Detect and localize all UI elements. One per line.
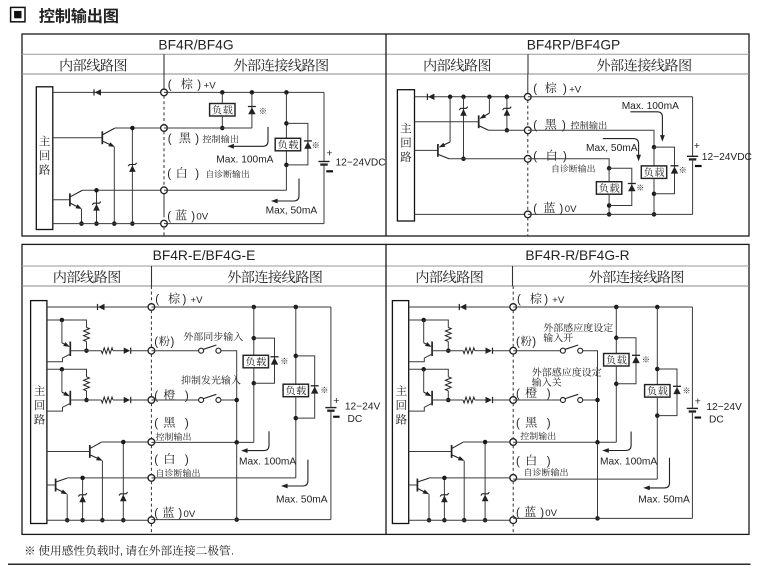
diode D1 reverse-protection (94, 89, 101, 95)
Q4 terminal white (510, 475, 517, 482)
Q3 transistor NPN diagnosis output (47, 478, 68, 494)
Q3 wire R4 to diode (113, 399, 124, 401)
Q3 label battery minus (333, 416, 340, 418)
Q4 label ( 黑 ) (516, 417, 551, 430)
svg-text:0V: 0V (545, 508, 557, 519)
Q4 diode D9 flyback (616, 338, 640, 384)
Q3 battery BT3 12-24V DC (325, 307, 336, 520)
column header 外部连接线路图 (right) (589, 270, 683, 283)
Q4 label (粉) (516, 336, 536, 349)
Q4 label 12-24V (706, 402, 742, 413)
Q3 main-circuit box 主回路 (31, 301, 47, 524)
svg-text:): ) (171, 337, 175, 349)
label ※ D2 (260, 108, 266, 114)
svg-text:): ) (547, 388, 551, 400)
svg-text:): ) (540, 507, 544, 519)
svg-text:(: ( (516, 456, 520, 468)
model title BF4R-R/BF4G-R (525, 248, 629, 263)
Q4 wire diode to orange terminal (493, 399, 514, 401)
svg-text:Max. 100mA: Max. 100mA (239, 457, 296, 468)
Q3 load LOAD6 diagnosis (283, 307, 308, 478)
label ( 蓝 )0V (167, 209, 209, 223)
Q4 wire input bus to 0V (595, 442, 600, 520)
Q4 wire black output external (513, 440, 616, 445)
Q3 zener diagnosis clamp (78, 476, 87, 523)
Q4 wire switch 2 to bus (583, 398, 600, 403)
wire Q4 collector to white output (449, 158, 528, 160)
diode D4 reverse-protection (427, 94, 434, 100)
Q3 wire input bus to 0V (234, 442, 239, 521)
svg-text:(: ( (516, 418, 520, 430)
table header row separator (22, 73, 749, 75)
Q2 terminal strip dashed line (527, 74, 529, 236)
svg-text:): ) (563, 151, 567, 163)
Q4 label 自诊断输出 (525, 468, 567, 476)
Q4 wire pink to switch (513, 350, 560, 352)
label battery minus (326, 170, 333, 172)
Q4 load LOAD7 control (604, 307, 629, 442)
Q4 terminal brown (510, 304, 517, 311)
svg-text:(: ( (533, 84, 537, 96)
model title BF4R/BF4G (158, 38, 233, 53)
load LOAD2 on self-diagnosis output (275, 92, 300, 190)
transistor Q2 NPN self-diagnosis output (53, 190, 82, 209)
label ※ D6 (637, 185, 643, 191)
Q4 input stage 1 pull-up wire (409, 318, 449, 328)
table center divider (385, 244, 387, 534)
label Max. 100mA (216, 155, 273, 166)
Q4 diode reverse-protection (459, 304, 466, 310)
Q3 label ( 蓝 )0V (154, 507, 196, 521)
Q3 diode input 2 series (124, 397, 131, 403)
Q4 label 控制输出 (520, 432, 555, 440)
svg-text:): ) (547, 456, 551, 468)
Q3 label 自诊断输出 (157, 469, 199, 477)
Q3 label ※ D7 (281, 358, 287, 364)
Q4 label 外部感应度设定 (2) (532, 367, 601, 376)
svg-text:0V: 0V (196, 212, 208, 223)
terminal white self-diagnosis output (524, 155, 531, 162)
model title BF4R-E/BF4G-E (153, 248, 256, 263)
svg-text:Max. 50mA: Max. 50mA (276, 495, 328, 506)
wire white output external (164, 189, 286, 191)
Q3 diode reverse-protection (98, 304, 105, 310)
Q3 label DC (348, 414, 363, 425)
Q3 wire collector to white terminal (67, 477, 151, 479)
svg-text:(: ( (167, 211, 171, 223)
label 12-24VDC (336, 157, 386, 168)
label ( 棕 )+V (533, 82, 582, 96)
svg-text:(: ( (516, 507, 520, 519)
svg-text:.: . (231, 546, 234, 558)
svg-text:Max, 50mA: Max, 50mA (266, 206, 318, 217)
main-circuit box U2 主回路 (397, 90, 414, 221)
diode D3 external flyback (286, 123, 312, 164)
svg-text:0V: 0V (565, 204, 577, 215)
Q3 wire emitter to rail (100, 461, 105, 523)
Q3 zener control clamp (119, 440, 128, 523)
svg-text:): ) (185, 418, 189, 430)
svg-text:12−24VDC: 12−24VDC (336, 157, 386, 168)
terminal blue 0V (524, 211, 531, 218)
label ( 白 ) 自诊断输出 (167, 167, 249, 181)
Q3 label (粉) (154, 336, 174, 349)
svg-text:+: + (326, 148, 332, 160)
terminal black control output (161, 125, 168, 132)
column header 内部线路图 (right) (417, 270, 483, 283)
svg-text:(: ( (155, 294, 159, 306)
svg-text:): ) (195, 134, 199, 146)
wire 0V external (164, 223, 324, 225)
svg-text:(: ( (517, 294, 521, 306)
Q3 terminal strip dashed line (150, 286, 152, 534)
svg-text:(: ( (154, 391, 158, 403)
svg-text:(: ( (167, 169, 171, 181)
model title BF4RP/BF4GP (527, 38, 621, 53)
Q4 transistor input 2 PNP (409, 369, 432, 411)
Q3 label battery plus (333, 395, 339, 407)
Q3 terminal blue (148, 517, 155, 524)
Q4 switch S4 sensitivity set OFF (560, 394, 582, 402)
Q4 wire white output external (513, 478, 657, 480)
Q4 label Max. 100mA (600, 457, 657, 468)
Q4 wire emitter to rail (462, 461, 467, 523)
page title 控制输出图 (39, 8, 118, 23)
table title row separator (22, 265, 749, 267)
Q4 wire diode to pink terminal (493, 350, 514, 352)
battery BT1 12-24VDC (318, 92, 329, 223)
Q3 wire emitter to rail (65, 494, 70, 522)
Q3 switch S1 external sync input (199, 345, 221, 353)
Q4 resistor R3 pull-up (445, 377, 451, 402)
svg-text:(: ( (154, 508, 158, 520)
Q3 label ( 白 ) (154, 453, 189, 467)
zener ZD3 on diagnosis output (459, 97, 468, 161)
Q3 wire orange to switch (151, 399, 198, 401)
label Max, 50mA (266, 206, 318, 217)
Q3 transistor input 2 PNP (47, 369, 70, 411)
Q3 input stage 2 pull-up wire (47, 367, 87, 377)
wire +V external to battery (528, 96, 693, 98)
svg-text:): ) (532, 337, 536, 349)
Q4 wire +V external (513, 305, 692, 310)
Q3 diode D8 flyback (296, 356, 319, 418)
Q4 label ( 棕 )+V (517, 293, 565, 307)
table title row separator (22, 53, 749, 55)
Q4 terminal orange (510, 397, 517, 404)
label ( 棕 )+V (168, 78, 216, 92)
Q4 main-circuit box 主回路 (392, 301, 408, 524)
footnote underline rule (8, 563, 751, 565)
Q3 wire +V external (151, 305, 331, 310)
svg-text:(: ( (533, 151, 537, 163)
zener ZD1 output clamp (128, 126, 137, 226)
wire Q3 collector to black output (489, 129, 528, 131)
Q4 label Max. 50mA (638, 495, 690, 506)
svg-text:(: ( (154, 455, 158, 467)
Q3 input stage 1 pull-up wire (47, 318, 87, 328)
svg-text:(: ( (154, 337, 158, 349)
Q3 load LOAD5 control (243, 307, 268, 442)
Q3 wire R2 to diode (113, 350, 124, 352)
diode D5 external flyback (654, 147, 679, 194)
svg-text:12−24V: 12−24V (706, 402, 742, 413)
Q4 label battery minus (695, 417, 702, 419)
Q4 transistor NPN diagnosis output (409, 478, 430, 494)
header column divider (left quadrant) (163, 54, 165, 74)
terminal blue 0V (161, 220, 168, 227)
svg-text:Max. 50mA: Max. 50mA (638, 495, 690, 506)
svg-text:Max, 50mA: Max, 50mA (586, 143, 638, 154)
Q3 label ( 棕 )+V (155, 293, 203, 307)
Q4 resistor R2 input 1 series (463, 348, 475, 354)
Q4 diode input 1 series (486, 348, 493, 354)
Q4 wire collector to black terminal (463, 441, 513, 443)
header column divider (left quadrant) (151, 266, 153, 286)
Q4 terminal blue (510, 517, 517, 524)
zener ZD2 diagnosis clamp (92, 188, 101, 226)
Q4 wire switch to bus (583, 351, 598, 443)
svg-text:+: + (695, 396, 701, 408)
label 12-24VDC (702, 152, 752, 163)
wire black output external (164, 127, 252, 129)
wire +V brown internal (415, 95, 528, 100)
page title bullet icon (11, 7, 25, 21)
Q4 zener diagnosis clamp (440, 476, 449, 523)
footnote ※ inductive load note (26, 545, 234, 558)
svg-text:+V: +V (552, 295, 565, 306)
Q3 label ( 橙 ) (154, 389, 189, 403)
label ※ D3 (313, 142, 319, 148)
wire Q2 collector to white output (82, 189, 164, 191)
diode D6 external flyback (609, 168, 636, 205)
main-circuit box U1 主回路 (36, 87, 53, 230)
Q4 arrow current diagnosis output (643, 458, 669, 491)
label Max. 100mA (622, 101, 679, 112)
Q4 diode input 2 series (486, 397, 493, 403)
svg-text:BF4RP/BF4GP: BF4RP/BF4GP (527, 38, 621, 53)
table frame (22, 34, 749, 236)
Q3 label ※ D8 (321, 387, 327, 393)
wire Q1 emitter down (112, 147, 117, 226)
label 自诊断输出 (553, 164, 595, 172)
Q3 resistor R2 input 1 series (101, 348, 113, 354)
wire +V brown internal (53, 91, 164, 93)
Q4 wire 0V internal rail (409, 519, 514, 521)
svg-text:(: ( (168, 80, 172, 92)
svg-text:Max. 100mA: Max. 100mA (622, 101, 679, 112)
Q4 input stage 2 pull-up wire (409, 367, 449, 377)
Q4 load LOAD8 diagnosis (645, 307, 670, 479)
svg-text:): ) (544, 294, 548, 306)
header column divider (right quadrant) (512, 266, 514, 286)
Q4 label ※ D10 (684, 387, 690, 393)
Q3 wire diode to orange terminal (131, 399, 152, 401)
table frame (22, 244, 749, 534)
svg-text:+V: +V (569, 84, 582, 95)
svg-text:BF4R/BF4G: BF4R/BF4G (158, 38, 233, 53)
transistor Q1 NPN control output (53, 128, 115, 147)
Q3 terminal pink (148, 347, 155, 354)
battery BT2 12-24VDC (687, 97, 698, 215)
Q4 wire R4 to diode (475, 399, 486, 401)
label ( 黑 ) 控制输出 (533, 119, 606, 132)
table header row separator (22, 285, 749, 287)
arrow current control output (227, 127, 268, 149)
Q3 transistor NPN control output (47, 442, 103, 461)
wire 0V external (528, 213, 693, 215)
Q4 label DC (709, 415, 724, 426)
Q4 terminal pink (510, 347, 517, 354)
Q3 wire black output external (151, 440, 253, 445)
label battery plus (326, 148, 332, 160)
Q4 label 外部感应度设定 (1) (544, 323, 613, 332)
Q3 wire 0V external (151, 519, 331, 521)
Q4 arrow current control output (602, 432, 631, 453)
diode D2 external flyback (248, 92, 256, 128)
Q3 transistor input 1 PNP (47, 320, 70, 362)
Q3 arrow current diagnosis output (281, 460, 308, 489)
column header 内部线路图 (left) (54, 270, 120, 283)
Q4 switch S3 sensitivity set ON (560, 345, 582, 353)
zener ZD4 on control output (503, 97, 512, 133)
Q3 arrow current control output (241, 431, 269, 453)
svg-text:+V: +V (204, 80, 217, 91)
Q3 resistor R1 pull-up (84, 328, 90, 353)
table center divider (385, 34, 387, 236)
svg-text:(: ( (168, 134, 172, 146)
Q4 label ※ D9 (643, 356, 649, 362)
svg-text:DC: DC (709, 415, 724, 426)
Q1 terminal strip dashed line (163, 74, 165, 236)
Q4 terminal strip dashed line (512, 286, 514, 534)
label battery plus (694, 140, 700, 152)
svg-text:BF4R-R/BF4G-R: BF4R-R/BF4G-R (525, 248, 629, 263)
svg-text:): ) (178, 508, 182, 520)
Q3 diode input 1 series (124, 348, 131, 354)
wire 0V internal rail (53, 223, 164, 225)
Q4 label 输入关 (532, 377, 561, 386)
terminal brown +V (524, 93, 531, 100)
Q4 label ( 蓝 )0V (516, 506, 558, 520)
arrow current control output (630, 112, 664, 142)
Q4 wire collector to white terminal (429, 477, 513, 479)
wire black output external (528, 130, 656, 149)
Q4 terminal black (510, 439, 517, 446)
svg-text:BF4R-E/BF4G-E: BF4R-E/BF4G-E (153, 248, 256, 263)
svg-text:0V: 0V (184, 509, 196, 520)
svg-text:12−24V: 12−24V (345, 401, 381, 412)
svg-text:): ) (197, 80, 201, 92)
Q3 wire collector to black terminal (101, 441, 151, 443)
Q4 wire R2 to diode (475, 350, 486, 352)
label ( 黑 ) 控制输出 (168, 132, 239, 145)
wire white output external (528, 159, 612, 171)
Q3 label Max. 50mA (276, 495, 328, 506)
svg-text:+: + (694, 140, 700, 152)
Q3 label ( 黑 ) (154, 417, 189, 430)
Q3 terminal brown (148, 304, 155, 311)
Q3 wire input 2 base line (70, 399, 101, 401)
Q3 terminal black (148, 439, 155, 446)
svg-text:(: ( (154, 418, 158, 430)
Q4 diode D10 flyback (657, 369, 681, 416)
Q4 zener control clamp (481, 440, 490, 523)
Q4 label ( 橙 ) (516, 387, 551, 401)
wire 0V internal rail (415, 213, 528, 215)
Q3 wire input 1 base line (70, 350, 101, 352)
Q4 resistor R4 input 2 series (463, 397, 475, 403)
Q3 terminal orange (148, 397, 155, 404)
Q4 wire input 2 base line (432, 399, 463, 401)
svg-text:): ) (563, 84, 567, 96)
svg-text:): ) (195, 169, 199, 181)
Q3 label Max. 100mA (239, 457, 296, 468)
Q3 label 抑制发光输入 (181, 375, 240, 384)
label ※ D5 (680, 167, 686, 173)
terminal brown +V (161, 89, 168, 96)
label ( 蓝 )0V (533, 202, 577, 216)
load LOAD3 on control output (641, 147, 666, 217)
Q3 label 12-24V (345, 401, 381, 412)
Q3 wire pink to switch (151, 350, 198, 352)
column header 内部线路图 (left) (61, 58, 127, 71)
terminal black control output (524, 127, 531, 134)
Q3 wire white output external (151, 477, 295, 479)
Q4 transistor input 1 PNP (409, 320, 432, 362)
Q4 wire emitter to rail (427, 494, 432, 522)
Q3 label 控制输出 (156, 432, 191, 440)
Q3 wire diode to pink terminal (131, 350, 152, 352)
svg-text:): ) (191, 211, 195, 223)
svg-text:Max. 100mA: Max. 100mA (600, 457, 657, 468)
Q3 wire switch to bus (221, 351, 237, 443)
svg-text:(: ( (516, 337, 520, 349)
terminal white self-diagnosis output (161, 187, 168, 194)
Q3 resistor R4 input 2 series (101, 397, 113, 403)
label battery minus (695, 165, 702, 167)
column header 内部线路图 (right) (425, 58, 491, 71)
arrow current diagnosis output (603, 139, 641, 162)
svg-text:+: + (333, 395, 339, 407)
svg-text:DC: DC (348, 414, 363, 425)
svg-text:(: ( (533, 203, 537, 215)
transistor Q4 PNP diagnosis output (415, 97, 451, 159)
label Max, 50mA (586, 143, 638, 154)
svg-text:): ) (547, 418, 551, 430)
load LOAD1 on control output (210, 92, 235, 130)
Q4 battery BT4 12-24V DC (687, 307, 698, 518)
wire +V external (164, 90, 324, 95)
arrow current diagnosis output (271, 179, 299, 204)
svg-text:12−24VDC: 12−24VDC (702, 152, 752, 163)
Q4 wire orange to switch (513, 399, 560, 401)
svg-text:Max. 100mA: Max. 100mA (216, 155, 273, 166)
Q4 wire 0V external (513, 517, 692, 519)
Q4 wire +V brown internal (409, 306, 514, 308)
Q3 wire switch 2 to bus (221, 398, 239, 403)
header column divider (right quadrant) (527, 54, 529, 74)
svg-text:(: ( (516, 388, 520, 400)
column header 外部连接线路图 (right) (597, 58, 691, 71)
Q4 wire input 1 base line (432, 350, 463, 352)
transistor Q3 PNP control output (415, 97, 490, 131)
Q4 transistor NPN control output (409, 442, 465, 461)
Q3 label 外部同步输入 (184, 332, 243, 341)
svg-text:): ) (185, 391, 189, 403)
svg-text:): ) (183, 294, 187, 306)
Q4 label battery plus (695, 396, 701, 408)
